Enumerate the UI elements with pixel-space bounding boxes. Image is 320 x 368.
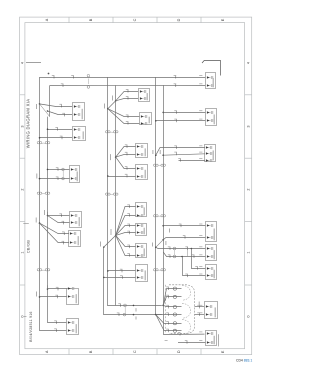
wire to L5 pin2 <box>40 223 70 242</box>
node on B2a y109 <box>107 108 109 110</box>
wire to M2 pin1 <box>108 109 140 117</box>
wire to M1 pin1 <box>116 92 138 101</box>
wire to R4 pin1 <box>163 225 205 227</box>
node on B2b y235 <box>115 235 117 237</box>
wire label near R box pin y307.0 <box>199 304 202 306</box>
wire label M pin y246.7 <box>127 245 130 248</box>
wire label row y330.8 <box>166 329 169 332</box>
border cell separator bottom <box>68 349 70 355</box>
node on B3b y226 <box>162 225 164 227</box>
wire label R7 pin1 <box>197 305 200 308</box>
wire label L5 pin2 <box>62 241 65 244</box>
wire label M pin y215.2 <box>127 214 130 217</box>
wire label M8 pin2 <box>120 276 123 279</box>
tiny label (160.2,152.0) <box>159 150 161 154</box>
wire label R5 pin2 <box>192 255 195 258</box>
border cell separator right <box>245 94 252 96</box>
wire label row y307.0 <box>166 305 169 308</box>
tiny label below HB2 <box>135 317 137 320</box>
connector link H1-H2 <box>88 79 90 85</box>
dashed connector block outline <box>169 285 195 334</box>
bus B2b x115.7 <box>115 86 117 306</box>
wire label L7 pin1 <box>54 321 57 324</box>
connector pin circle row y296.9 <box>173 295 176 298</box>
connector box L4 <box>70 212 82 228</box>
node on B2a y271 <box>107 270 109 272</box>
svg-text:0: 0 <box>246 315 250 317</box>
connector row wire y323.2 <box>156 315 182 324</box>
wire label row y296.9 <box>166 295 169 298</box>
inline connector bus x39.5 y193.2 <box>37 192 42 194</box>
node on B3a y155 <box>155 154 157 156</box>
wire label near R box pin y153.8 <box>199 151 202 153</box>
wire label R3 pin3 <box>178 159 181 162</box>
wire label R4 pin1 <box>179 224 182 227</box>
connector box M1 <box>139 89 150 102</box>
inline connector bus x107.8 y131.8 <box>105 131 110 133</box>
connector box R1 <box>206 73 216 89</box>
wire to R8 pin2 <box>178 342 205 344</box>
wire tick R5 pin2 <box>168 255 171 258</box>
wire to L3 pin2 <box>40 178 70 180</box>
wire label near R box pin y225.7 <box>199 223 202 225</box>
wire to M4 pin2 <box>108 176 136 178</box>
connector link y165.2 <box>158 165 161 167</box>
connector pin circle row y307.0 <box>173 305 176 308</box>
connector box R6 <box>206 265 217 280</box>
wire label M8 pin1 <box>120 269 123 272</box>
fan wire to M box pin y232.8 <box>116 233 136 236</box>
connector box R8 <box>206 331 217 346</box>
svg-text:A: A <box>45 350 49 353</box>
wire tick on H1 <box>52 75 55 78</box>
svg-text:0: 0 <box>20 315 24 317</box>
inline connector bus x39.5 y269.8 <box>37 269 42 271</box>
svg-text:3: 3 <box>246 125 250 127</box>
wire label R6 pin1 <box>195 267 198 270</box>
inline connector bus x163.2 y269.8 <box>161 269 166 271</box>
connector box L6 <box>67 287 79 305</box>
connector link y131.8 <box>110 131 113 133</box>
border cell separator left <box>20 157 25 159</box>
border cell separator bottom <box>200 349 202 355</box>
tiny label under B3b bottom line <box>165 340 168 342</box>
wire tick harness HB2 <box>117 313 120 316</box>
tiny label (110.5,157.1) <box>110 154 112 160</box>
wire to R2 pin2 <box>156 120 206 122</box>
wire label near R box pin y77.1 <box>199 74 202 76</box>
wire to R7 pin1 <box>195 306 205 308</box>
node on B1b y289 <box>47 288 49 290</box>
connector box L7 <box>67 319 79 335</box>
connector link y194.1 <box>110 193 113 195</box>
wire label near R box pin y342.3 <box>199 340 202 342</box>
wire label M2 pin1 <box>126 115 129 118</box>
border cell separator top <box>156 17 158 23</box>
svg-text:A: A <box>45 18 49 21</box>
connector link y269.8 <box>42 269 45 271</box>
inline connector bus x155.8 y215.8 <box>153 215 158 217</box>
svg-text:4: 4 <box>246 62 250 64</box>
wire label L5 pin1 <box>62 232 65 235</box>
border cell separator top <box>200 17 202 23</box>
inline connector bus x107.8 y194.1 <box>105 193 110 195</box>
svg-text:E: E <box>221 18 225 21</box>
wire label M pin y232.8 <box>127 231 130 234</box>
diagonal link between buses <box>156 240 163 248</box>
connector link y215.8 <box>158 215 161 217</box>
wire to R3 pin2 <box>163 154 205 155</box>
wire label near R box pin y112.4 <box>199 110 202 112</box>
zone tick left y223 <box>23 223 29 225</box>
wire to R6 pin1 <box>192 249 206 269</box>
border cell separator right <box>245 221 252 223</box>
wire label R2 pin1 <box>174 111 177 114</box>
wire label row y288.6 <box>166 287 169 290</box>
svg-text:D: D <box>177 350 181 353</box>
node on B1a y297 <box>39 296 41 298</box>
connector box M2 <box>140 113 152 126</box>
wire tick R5 pin1 <box>168 247 171 250</box>
wire label H2 right <box>174 84 177 87</box>
connector link R5 wires <box>174 250 176 255</box>
wire label M4 pin1 <box>125 167 128 170</box>
connector box M8 <box>136 265 148 282</box>
outer border frame <box>20 17 252 355</box>
bus B2c x103.9 down to harness wire <box>104 247 162 315</box>
connector half on H1 <box>87 74 90 77</box>
wire label near R box pin y147.5 <box>199 145 202 147</box>
tiny label left of node <box>152 243 154 247</box>
svg-text:C: C <box>133 18 137 21</box>
wire to M2 pin2 <box>108 109 140 124</box>
wire label near R box pin y120.8 <box>199 118 202 120</box>
wire label M1 pin2 <box>126 97 129 100</box>
wire to R3 pin1 <box>156 148 205 156</box>
node on B1a y138 <box>39 137 41 139</box>
wire label M1 pin1 <box>126 89 129 92</box>
wire H2 top <box>50 84 206 86</box>
tiny label (100.5,244.0) <box>100 242 102 247</box>
bus B1b x47.5 down to L7 pin1 <box>48 117 68 323</box>
tiny label (111.0,232.0) <box>110 229 112 235</box>
wire label M pin y206.5 <box>127 205 130 208</box>
inline connector bus x115.7 y131.8 <box>113 131 118 133</box>
wire to R2 pin1 <box>163 112 205 114</box>
svg-text:WIRING DIAGRAM XIA: WIRING DIAGRAM XIA <box>26 99 31 149</box>
node on B3a y121 <box>155 120 157 122</box>
wire label L6 pin2 <box>55 295 58 298</box>
connector box L5 <box>69 231 81 247</box>
connector box L3 <box>70 166 80 183</box>
connector on L3 pin2 wire <box>62 177 65 180</box>
inline connector bus x115.7 y194.1 <box>113 193 118 195</box>
connector box R4 <box>206 222 217 242</box>
wire label L6 pin1 <box>56 287 59 290</box>
wire label H1 right <box>174 75 177 78</box>
wire to R5 pin1 <box>156 247 206 248</box>
tiny label (112.5,98.0) <box>112 96 114 101</box>
connector box L2 <box>73 127 86 141</box>
node on B2c top <box>103 246 105 248</box>
wire to L1 pin1 <box>40 104 73 107</box>
wire to L4 pin1 <box>48 215 70 217</box>
stub above node y289 <box>47 285 49 289</box>
wire label near R box pin y268.2 <box>199 266 202 268</box>
junction dot on HB1 <box>133 305 135 307</box>
connector pin circle row y323.2 <box>173 322 176 325</box>
border cell separator top <box>68 17 70 23</box>
inline connector bus x155.8 y165.2 <box>153 164 158 166</box>
node on B1b y215 <box>47 215 49 217</box>
border cell separator left <box>20 221 25 223</box>
connector box M7 <box>136 244 147 258</box>
wire label row y323.2 <box>166 322 169 325</box>
border cell separator left <box>20 284 25 286</box>
inline connector bus x155.8 y269.8 <box>153 269 158 271</box>
wire to L6 pin2 <box>40 296 67 298</box>
connector pin circle row y288.6 <box>173 287 176 290</box>
tiny label (104.5,106.0) <box>104 104 106 109</box>
wire label L2 pin2 <box>60 136 63 139</box>
wire label M4 pin2 <box>125 174 128 177</box>
node on B1b y111 <box>47 110 49 112</box>
wire to L3 pin1 <box>48 169 70 171</box>
svg-text:B: B <box>89 18 93 21</box>
wire label R4 pin2 <box>183 236 186 239</box>
wire label R7 pin2 <box>197 313 200 316</box>
border cell separator left <box>20 94 25 96</box>
inline connector bus x39.5 y142.7 <box>37 142 42 144</box>
connector on R5 pin1 wire <box>173 247 176 250</box>
wire to R6 pin2 <box>183 257 206 276</box>
connector on L3 pin1 wire <box>62 168 65 171</box>
bus B2a x107.8 down to harness wire <box>108 77 162 305</box>
node on B3b y112 <box>162 112 164 114</box>
svg-text:CD4 883.1: CD4 883.1 <box>236 359 252 363</box>
tiny label right of block <box>198 302 200 306</box>
node on B2a y176 <box>107 175 109 177</box>
tiny label in cluster <box>165 241 167 245</box>
tap node on R5 pin2 wire <box>181 256 183 258</box>
wire label R5 pin1 <box>185 247 188 250</box>
wire label R8 pin2 <box>185 341 188 344</box>
svg-text:1: 1 <box>20 251 24 253</box>
wire tick 2 on H1 <box>71 75 74 78</box>
svg-text:C: C <box>133 350 137 353</box>
connector box R2 <box>206 109 217 126</box>
wire label L1 pin1 <box>59 104 62 107</box>
stub above node y215 <box>47 212 49 216</box>
tiny label (36.2,220.0) <box>35 218 37 223</box>
wire label near R box pin y160.2 <box>199 158 202 160</box>
fan wire to M box pin y255.2 <box>116 235 136 255</box>
bus B1b upper x49.7 <box>49 86 51 117</box>
inline connector bus x47.5 y269.8 <box>45 269 50 271</box>
tap node on R5 pin1 wire <box>191 248 193 250</box>
svg-text:2: 2 <box>20 188 24 190</box>
fan wire to M box pin y225.7 <box>116 226 136 236</box>
connector row wire y307.0 <box>163 305 181 306</box>
wire label row y314.5 <box>166 313 169 316</box>
wire label near R box pin y333.6 <box>199 331 202 333</box>
wire H1 top <box>40 77 206 79</box>
wire label R8 pin1 <box>178 332 181 335</box>
connector row wire y296.9 <box>163 297 181 306</box>
node on B3a y247 <box>155 247 157 249</box>
wire label M pin y255.2 <box>127 254 130 257</box>
svg-text:B: B <box>89 350 93 353</box>
bus B3b x163.2 down to R8 <box>164 86 205 335</box>
wire to R4 pin2 <box>163 238 205 240</box>
connector on HB2 <box>123 313 126 316</box>
wire label L4 pin2 <box>62 221 65 224</box>
fan wire to M box pin y206.5 <box>116 207 136 236</box>
svg-text:E: E <box>221 350 225 353</box>
junction dot on HB2 <box>133 314 135 316</box>
connector link y193.2 <box>42 193 45 195</box>
tiny label above cluster <box>169 229 171 233</box>
node on B1b y169 <box>47 169 49 171</box>
svg-text:3: 3 <box>20 125 24 127</box>
wire to R5 pin2 <box>163 252 205 257</box>
zone tick left y62 <box>26 62 41 64</box>
wire label L7 pin2 <box>54 329 57 332</box>
wire label R2 pin2 <box>174 119 177 122</box>
wire to M1 pin2 <box>116 99 138 101</box>
wire label near R box pin y314.5 <box>199 312 202 314</box>
wire to R7 pin2 <box>195 314 205 316</box>
dashed left edge of connector block <box>165 285 167 334</box>
node on B1a y223 <box>39 222 41 224</box>
node on B1b y129 <box>47 128 49 130</box>
label blob near H1 start <box>48 73 50 75</box>
dashed housing arcs inside block <box>182 285 191 300</box>
connector link HB1-HB2 <box>124 307 126 313</box>
wire label R3 pin2 <box>174 152 177 155</box>
connector row wire y330.8 <box>156 315 182 331</box>
border cell separator bottom <box>156 349 158 355</box>
wire tick L3 pin2 <box>56 177 59 180</box>
wire tick L3 pin1 <box>56 168 59 171</box>
wire label M3 pin2 <box>125 152 128 155</box>
wire label M3 pin1 <box>125 145 128 148</box>
wire tick harness HB1 <box>118 304 121 307</box>
connector box R7 <box>205 302 218 319</box>
harness bracket above R1 <box>202 61 221 76</box>
wire to L2 pin1 <box>48 129 73 131</box>
connector box M5 <box>136 203 147 218</box>
wire label R6 pin2 <box>185 274 188 277</box>
node on B3b y155 <box>162 154 164 156</box>
inline connector bus x163.2 y215.8 <box>161 215 166 217</box>
wire to M8 pin1 <box>108 270 136 272</box>
connector half on H2 <box>87 86 90 89</box>
bus B1a x39.5 down to L7 pin2 <box>40 77 68 330</box>
switch blade diagonal at L1 node <box>40 104 50 117</box>
connector on HB1 <box>124 304 127 307</box>
svg-text:D: D <box>177 18 181 21</box>
inline connector bus x163.2 y165.2 <box>161 164 166 166</box>
connector box M6 <box>136 224 147 236</box>
wire label L2 pin1 <box>55 128 58 131</box>
fan wire to M box pin y246.7 <box>116 235 136 246</box>
svg-text:1: 1 <box>246 251 250 253</box>
svg-text:B/04/V28511 916: B/04/V28511 916 <box>29 311 33 341</box>
wire label near R box pin y275.7 <box>199 273 202 275</box>
border cell separator top <box>112 17 114 23</box>
svg-text:2: 2 <box>246 188 250 190</box>
bracket between R5 wires <box>187 247 189 257</box>
connector link y269.8 <box>158 269 161 271</box>
node on B1a y104 <box>39 103 41 105</box>
wire label L4 pin1 <box>59 214 62 217</box>
wire label L1 pin2 <box>62 113 65 116</box>
tiny label (36.5,294.0) <box>36 292 38 297</box>
wire stub to R3 pin3 <box>179 160 206 162</box>
wire label near R box pin y248.5 <box>199 246 202 248</box>
connector box M3 <box>136 144 148 158</box>
junction dot (163.2,305.4) <box>162 305 164 307</box>
wire label M2 pin2 <box>126 122 129 125</box>
connector pin circle row y330.8 <box>173 329 176 332</box>
wire to L6 pin1 <box>48 288 67 290</box>
junction dot (155.8,314.6) <box>155 314 157 316</box>
wire label near R box pin y237.3 <box>199 235 202 237</box>
node on B3b y240 <box>162 239 164 241</box>
connector on R5 pin2 wire <box>173 255 176 258</box>
border cell separator bottom <box>112 349 114 355</box>
wire label R3 pin1 <box>174 146 177 149</box>
connector box M4 <box>136 165 148 180</box>
connector pin circle row y314.5 <box>173 313 176 316</box>
tiny label (152.9,152.0) <box>152 150 154 154</box>
wire to M3 pin1 <box>116 147 136 158</box>
connector row wire y314.5 <box>156 314 182 316</box>
wire tick on H2 <box>61 84 64 87</box>
wire to M4 pin1 <box>116 157 136 168</box>
wire label near R box pin y85.5 <box>199 83 202 85</box>
bus B3a x155.8 down to HB2 <box>155 77 157 315</box>
border cell separator right <box>245 157 252 159</box>
node on B2b y101 <box>115 100 117 102</box>
tiny label (44.5,212.5) <box>44 210 46 215</box>
wire label near R box pin y256.5 <box>199 254 202 256</box>
svg-text:4: 4 <box>20 62 24 64</box>
connector link L3 wires <box>62 171 64 177</box>
node N4 on B1a y179 <box>39 178 41 180</box>
diagonal to B2c <box>104 235 116 247</box>
wire to M8 pin2 <box>104 277 136 279</box>
wire to L2 pin2 <box>40 137 73 139</box>
wire to L5 pin1 <box>40 223 70 233</box>
zone tick left y316 <box>24 316 27 318</box>
border cell separator right <box>245 284 252 286</box>
tiny label (36.8,176.0) <box>36 174 38 179</box>
connector box R5 <box>206 245 217 261</box>
fan wire to M box pin y215.2 <box>116 216 136 236</box>
tiny label below HB1 <box>135 308 137 311</box>
svg-text:CB/GB: CB/GB <box>27 240 31 253</box>
wire to L4 pin2 <box>48 216 70 223</box>
connector link y142.7 <box>42 142 45 144</box>
wire to L1 pin2 <box>48 111 73 115</box>
connector box L1 <box>73 103 85 121</box>
stub line right of R8 <box>218 334 220 346</box>
diagonal between fan nodes <box>108 101 116 109</box>
connector row wire y288.6 <box>163 289 181 306</box>
wire label M pin y225.7 <box>127 224 130 227</box>
